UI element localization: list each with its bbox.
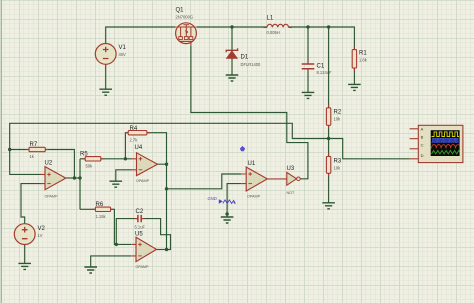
wire R5 to U4 + xyxy=(101,158,132,160)
voltage source V1 xyxy=(95,44,126,65)
svg-text:40V: 40V xyxy=(119,52,127,57)
wire U5 output xyxy=(157,249,167,251)
wire R4 branch xyxy=(125,133,128,159)
ground under U1 - input xyxy=(221,217,234,223)
wire V2 to ground xyxy=(24,245,26,264)
ground under U5 - input xyxy=(84,267,97,273)
svg-text:10k: 10k xyxy=(334,166,342,171)
wire VOUT to R2 top xyxy=(328,27,330,108)
wire to R5 xyxy=(80,158,85,160)
wire node VOUT to C1 xyxy=(307,27,309,64)
wire R5/R6 branch column xyxy=(79,159,81,210)
wire feedback rail to U2 + xyxy=(10,123,329,174)
diode D1 xyxy=(226,48,261,67)
svg-text:OPAMP: OPAMP xyxy=(45,195,59,199)
svg-text:2N7000G: 2N7000G xyxy=(176,15,194,20)
inductor L1 xyxy=(264,15,293,35)
svg-text:R7: R7 xyxy=(30,142,38,148)
svg-text:C1: C1 xyxy=(317,64,325,70)
svg-text:U2: U2 xyxy=(45,161,53,167)
generator GND marker xyxy=(208,196,236,204)
voltage source V2 xyxy=(14,224,45,245)
wire U3 output to Q1 gate xyxy=(191,46,308,179)
wire V1 to Q1 rail xyxy=(106,27,176,44)
resistor R7 xyxy=(26,142,48,159)
junction node J4 xyxy=(8,148,11,151)
svg-text:0.005H: 0.005H xyxy=(267,30,280,35)
svg-text:V2: V2 xyxy=(38,226,46,232)
resistor R3 xyxy=(326,153,341,176)
junction node J3 xyxy=(327,25,330,28)
svg-text:OPAMP: OPAMP xyxy=(247,195,261,199)
svg-text:D1: D1 xyxy=(241,54,249,60)
capacitor C2 xyxy=(135,209,146,230)
svg-text:U1: U1 xyxy=(248,161,256,167)
wire R2 to R3 xyxy=(328,125,330,156)
op-amp U2 xyxy=(41,161,66,199)
NOT gate U3 xyxy=(287,166,301,195)
svg-text:OPAMP: OPAMP xyxy=(136,265,150,269)
svg-text:U3: U3 xyxy=(287,166,295,172)
ground under R1 xyxy=(348,84,361,90)
op-amp U1 xyxy=(242,161,268,198)
svg-text:U5: U5 xyxy=(135,231,143,237)
svg-text:8.124uF: 8.124uF xyxy=(317,70,333,75)
junction node J2 xyxy=(306,25,309,28)
svg-text:NOT: NOT xyxy=(287,191,296,195)
svg-text:OPAMP: OPAMP xyxy=(136,179,150,183)
wire R4 to U4 output xyxy=(147,133,167,165)
svg-text:Q1: Q1 xyxy=(176,8,185,14)
svg-text:R4: R4 xyxy=(130,126,138,132)
wire R1 to ground xyxy=(353,68,355,84)
op-amp U5 xyxy=(132,231,157,268)
junction node J10 xyxy=(165,248,168,251)
wire L1 to R1 top xyxy=(289,27,355,50)
wire node VD to D1 xyxy=(231,27,233,50)
ground under C1 xyxy=(302,92,315,98)
svg-text:10k: 10k xyxy=(334,117,342,122)
wire U2 - to V2 xyxy=(21,184,42,224)
svg-text:U4: U4 xyxy=(135,145,143,151)
ground under R3 xyxy=(322,203,335,209)
junction node J6 xyxy=(78,176,81,179)
svg-text:C2: C2 xyxy=(136,209,144,215)
resistor R6 xyxy=(92,202,113,219)
sheet border xyxy=(1,0,3,303)
svg-text:R6: R6 xyxy=(96,202,104,208)
wire U4 output column xyxy=(158,164,167,249)
junction node J1 xyxy=(230,25,233,28)
junction node J5 xyxy=(73,176,76,179)
wire R7 right to U2 output xyxy=(45,150,74,179)
svg-text:2.7k: 2.7k xyxy=(130,137,139,142)
resistor R1 xyxy=(352,47,367,71)
wire to R6 xyxy=(80,208,95,210)
resistor R5 xyxy=(80,151,104,168)
junction node J7 xyxy=(124,157,127,160)
svg-text:V1: V1 xyxy=(119,45,127,51)
svg-text:50k: 50k xyxy=(86,163,94,168)
svg-text:DFLR1400: DFLR1400 xyxy=(241,62,262,67)
junction node J9 xyxy=(165,187,168,190)
svg-text:GND: GND xyxy=(208,196,217,201)
wire C2 right to U5 output xyxy=(141,219,170,250)
wire to U1 + xyxy=(167,174,242,189)
resistor R4 xyxy=(125,126,150,143)
svg-text:A: A xyxy=(421,127,424,132)
svg-text:R2: R2 xyxy=(334,110,342,116)
origin marker xyxy=(240,146,245,151)
ground under V1 xyxy=(99,89,112,95)
svg-text:L1: L1 xyxy=(267,15,274,21)
junction node J13 xyxy=(225,212,228,215)
ground under D1 xyxy=(226,75,239,81)
transistor Q1 xyxy=(176,8,197,46)
capacitor C1 xyxy=(302,61,332,76)
ground under V2 xyxy=(18,263,31,269)
wire Q1 to L1 xyxy=(196,26,267,28)
wire D1 to ground xyxy=(231,58,233,75)
wire U1 output to U3 input xyxy=(267,178,287,180)
svg-text:B: B xyxy=(421,134,424,139)
wire divider to scope D xyxy=(329,139,410,159)
wire C1 to ground xyxy=(307,69,309,92)
svg-text:5.1uF: 5.1uF xyxy=(135,224,146,229)
op-amp U4 xyxy=(132,145,158,183)
wire R7 left xyxy=(10,149,29,151)
svg-text:R5: R5 xyxy=(80,151,88,157)
wire U2 output node xyxy=(66,177,80,179)
junction node J8 xyxy=(165,163,168,166)
ground under U4 - input xyxy=(110,181,123,187)
wire R3 to ground xyxy=(328,173,330,203)
wire C2 left to U5 + xyxy=(116,219,138,245)
svg-text:C: C xyxy=(421,143,424,148)
svg-text:1.15k: 1.15k xyxy=(96,214,107,219)
svg-text:1.8k: 1.8k xyxy=(359,58,368,63)
junction node J12 xyxy=(115,243,118,246)
wire V1 to ground xyxy=(105,64,107,89)
svg-text:1V: 1V xyxy=(38,233,43,238)
svg-text:D: D xyxy=(421,153,424,158)
wire U1 - to ground xyxy=(227,184,241,217)
svg-text:R1: R1 xyxy=(359,51,367,57)
svg-text:R3: R3 xyxy=(334,159,342,165)
wire U4 - to ground xyxy=(116,170,132,181)
wire U5 - to ground xyxy=(91,256,132,267)
junction node J11 xyxy=(327,137,330,140)
resistor R2 xyxy=(326,105,341,129)
wire R6 to U5 + xyxy=(111,209,132,244)
